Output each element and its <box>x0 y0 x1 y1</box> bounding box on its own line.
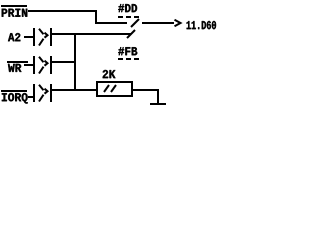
resistor R1 body <box>97 82 132 96</box>
wire IORQ input stub <box>28 96 34 98</box>
wire junction vertical joining outputs <box>74 33 76 91</box>
wire PRIN to bus slash <box>95 22 127 24</box>
node WR label <box>7 61 28 72</box>
buffer U1a (A2) <box>33 28 52 46</box>
net label #FB <box>118 47 139 60</box>
node 11.D60 off-page reference <box>187 21 216 29</box>
wire bus output <box>142 22 174 24</box>
wire PRIN horizontal <box>28 10 97 12</box>
node IORQ label <box>1 90 28 104</box>
wire ground vertical <box>157 89 159 104</box>
bus slash lower <box>127 30 135 38</box>
resistor R1 value 2K <box>103 70 116 78</box>
wire A2 gate output to bus <box>51 33 131 35</box>
wire WR gate output to junction <box>51 61 76 63</box>
wire WR input stub <box>24 64 34 66</box>
buffer U1b (WR) <box>33 56 52 74</box>
wire resistor to ground <box>131 89 159 91</box>
ground <box>150 103 166 105</box>
buffer U1c (IORQ) <box>33 84 52 102</box>
node PRIN label <box>1 5 27 17</box>
wire PRIN step vertical <box>95 10 97 24</box>
node A2 label <box>8 33 20 41</box>
wire IORQ gate output to resistor <box>51 89 96 91</box>
arrowhead off-page <box>175 20 181 27</box>
bus slash upper <box>131 19 139 27</box>
net label #DD <box>118 4 139 18</box>
wire A2 input stub <box>24 36 34 38</box>
